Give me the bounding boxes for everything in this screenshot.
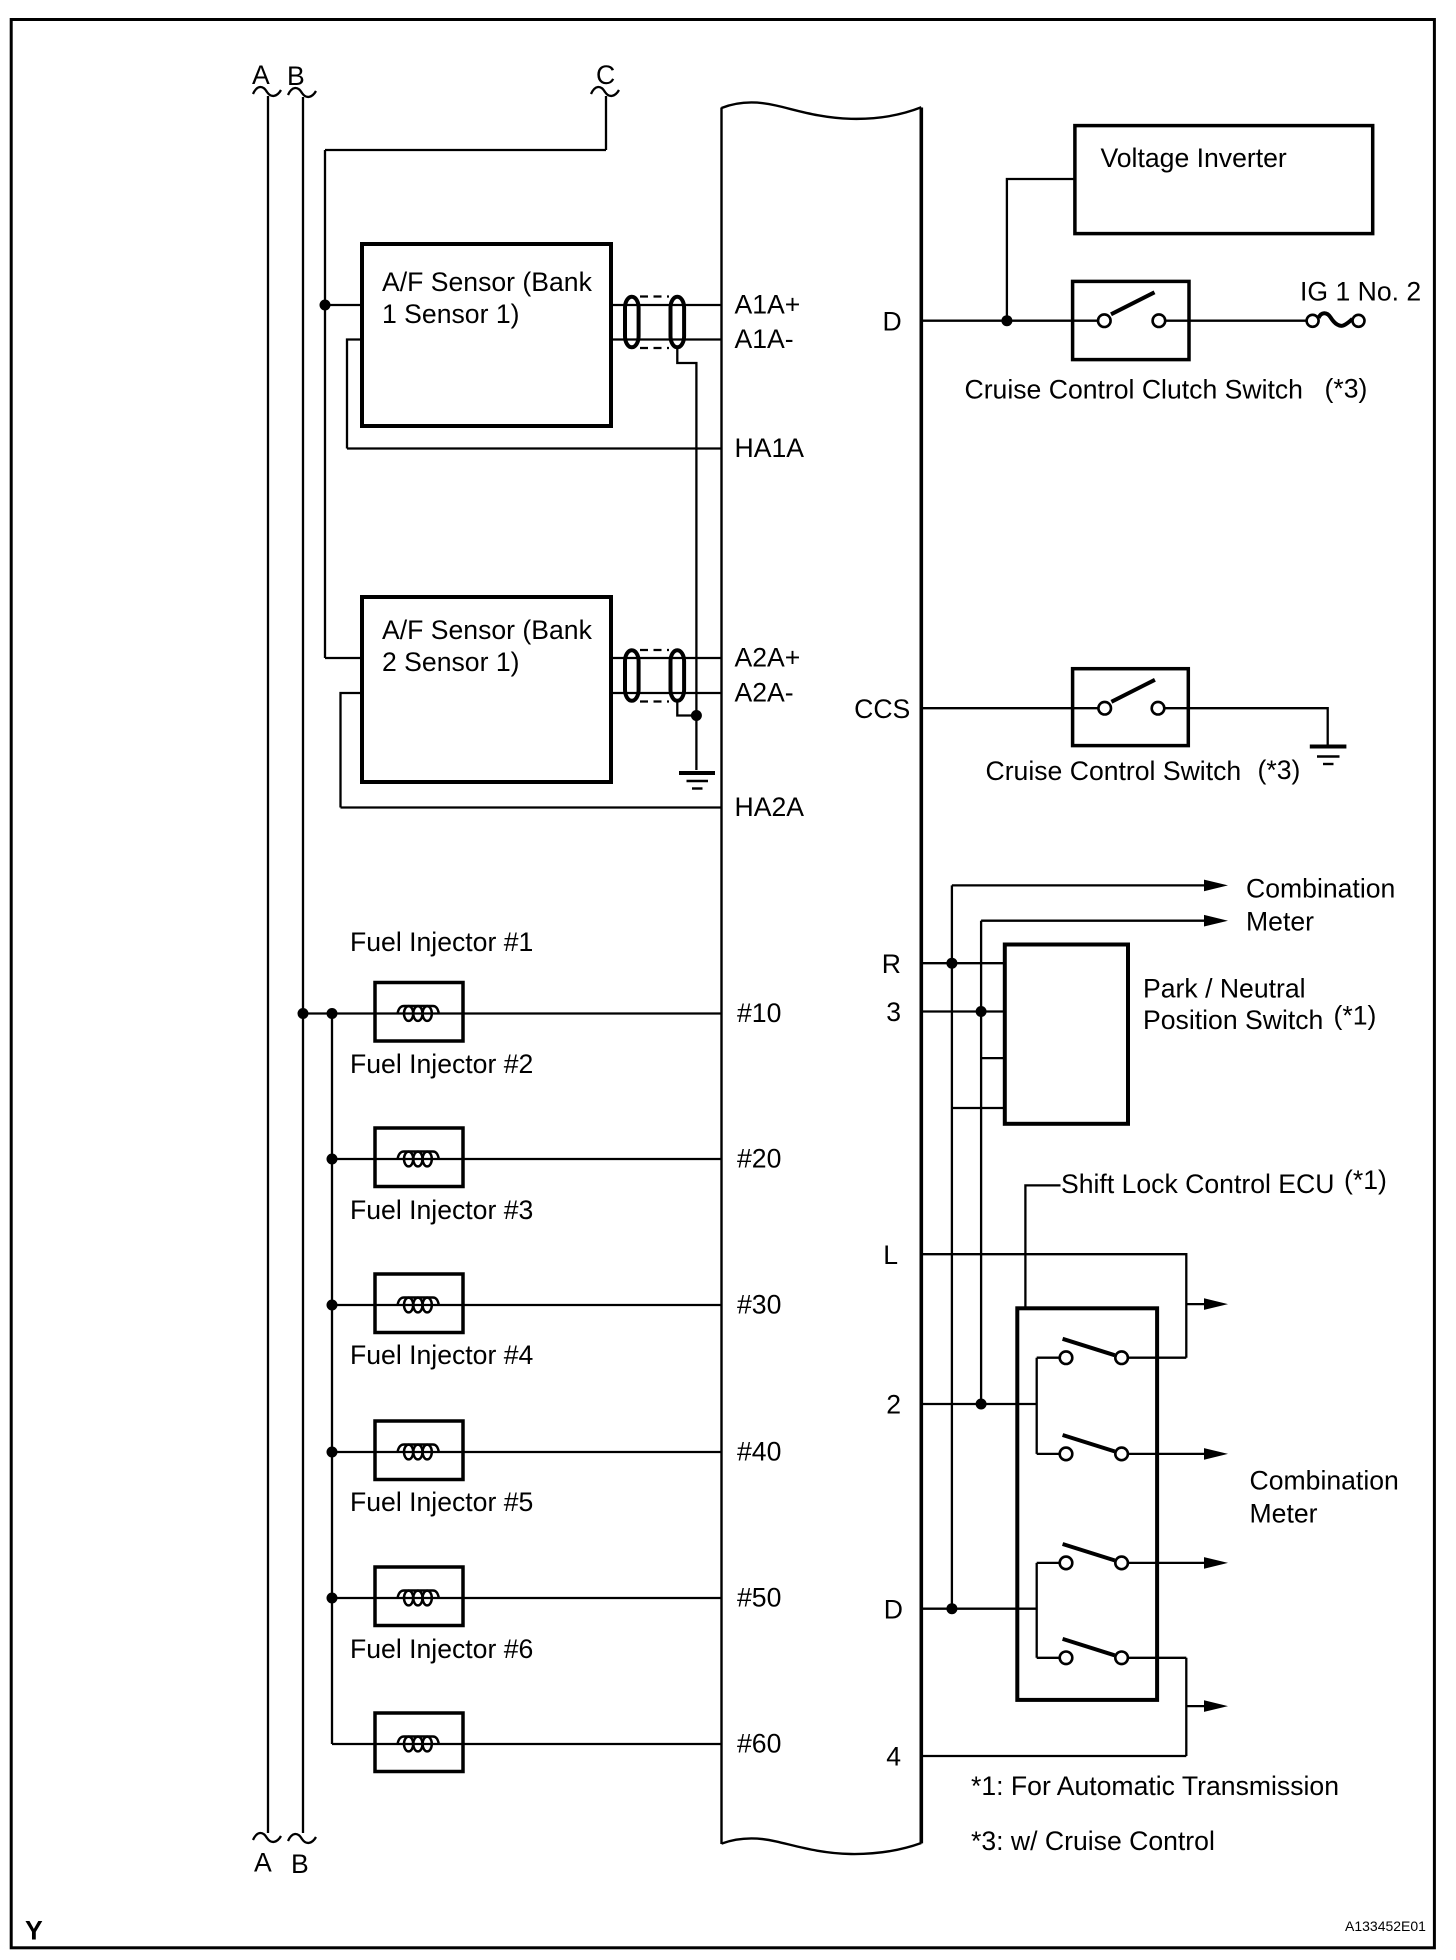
wire R bbox=[921, 962, 1005, 964]
svg-text:B: B bbox=[287, 61, 305, 91]
svg-text:3: 3 bbox=[886, 997, 901, 1027]
node junction dot wire B / injector row 1 bbox=[298, 1008, 309, 1019]
wire A2A- bbox=[611, 692, 722, 694]
wire C left vertical down to sensors bbox=[324, 150, 326, 658]
svg-text:A2A+: A2A+ bbox=[735, 643, 801, 673]
twisted pair bank1 dashed top bbox=[640, 295, 669, 297]
wire bank1 shield to ground bbox=[677, 348, 696, 771]
svg-text:A/F Sensor (Bank: A/F Sensor (Bank bbox=[382, 267, 593, 297]
svg-text:Voltage Inverter: Voltage Inverter bbox=[1101, 143, 1287, 173]
wire shift lock control ECU bbox=[1025, 1185, 1060, 1308]
svg-text:Meter: Meter bbox=[1246, 907, 1314, 937]
break symbol wire A bottom bbox=[253, 1833, 281, 1842]
RIGHT SIDE bbox=[854, 126, 1421, 786]
svg-text:A2A-: A2A- bbox=[735, 678, 794, 708]
wire HA2A bbox=[341, 806, 722, 808]
svg-text:#60: #60 bbox=[737, 1729, 781, 1759]
op Cruise Control Clutch Switch box bbox=[1073, 281, 1189, 359]
svg-text:Cruise Control Clutch Switch: Cruise Control Clutch Switch bbox=[965, 375, 1303, 405]
twisted pair bank2 ellipse 2 bbox=[671, 650, 685, 701]
svg-text:1 Sensor 1): 1 Sensor 1) bbox=[382, 299, 519, 329]
svg-text:C: C bbox=[596, 60, 615, 90]
wire switch 2 right to arrow bbox=[1122, 1453, 1204, 1455]
node junction dot 2 bbox=[976, 1399, 987, 1410]
svg-text:Park / Neutral: Park / Neutral bbox=[1143, 974, 1306, 1004]
wire vertical R-to-D chain bbox=[951, 885, 953, 1608]
switch blade meter 1 bbox=[1063, 1339, 1115, 1355]
svg-text:2 Sensor 1): 2 Sensor 1) bbox=[382, 647, 519, 677]
wire vertical 3-to-2 chain bbox=[980, 921, 982, 1404]
switch contact left clutch bbox=[1098, 314, 1111, 327]
wire injector #4 row bbox=[332, 1451, 722, 1453]
svg-text:CCS: CCS bbox=[854, 694, 910, 724]
svg-text:(*3): (*3) bbox=[1325, 374, 1368, 404]
wire bank1 lower left to HA1A bbox=[347, 340, 362, 449]
svg-text:Y: Y bbox=[25, 1915, 43, 1945]
wire 4 bbox=[921, 1755, 1186, 1757]
node junction dot injector bus row 5 bbox=[327, 1593, 338, 1604]
svg-text:Shift Lock Control ECU: Shift Lock Control ECU bbox=[1061, 1169, 1334, 1199]
svg-text:Combination: Combination bbox=[1246, 874, 1395, 904]
svg-text:Fuel Injector #4: Fuel Injector #4 bbox=[350, 1340, 534, 1370]
switch contact right clutch bbox=[1153, 314, 1166, 327]
ECM bus bottom wavy edge bbox=[722, 1839, 922, 1854]
wire switch 4 arrow tap bbox=[1186, 1705, 1204, 1707]
svg-text:A: A bbox=[254, 1848, 272, 1878]
node junction dot 3 bbox=[976, 1006, 987, 1017]
svg-text:L: L bbox=[883, 1240, 898, 1270]
svg-text:2: 2 bbox=[886, 1390, 901, 1420]
wire CCS switch to ground bbox=[1158, 708, 1328, 745]
wire CCS from bus bbox=[921, 707, 1104, 709]
wire A bbox=[267, 96, 269, 1833]
switch contact right cruise bbox=[1152, 702, 1165, 715]
svg-text:#30: #30 bbox=[737, 1290, 781, 1320]
wire HA1A bbox=[347, 447, 722, 449]
switch contact left cruise bbox=[1098, 702, 1111, 715]
wire bank2 input bbox=[325, 657, 362, 659]
IG terminal circle right bbox=[1353, 315, 1365, 327]
injector L4 box bbox=[375, 1421, 463, 1480]
svg-text:A/F Sensor (Bank: A/F Sensor (Bank bbox=[382, 615, 593, 645]
injector L2 box bbox=[375, 1128, 463, 1187]
svg-text:#50: #50 bbox=[737, 1583, 781, 1613]
svg-text:IG 1 No. 2: IG 1 No. 2 bbox=[1300, 276, 1421, 306]
svg-text:HA1A: HA1A bbox=[735, 433, 805, 463]
op Combination Meter switch box bbox=[1017, 1308, 1157, 1700]
wire bracket switch 3-4 bbox=[1036, 1563, 1038, 1658]
injector L1 coil bbox=[398, 1006, 439, 1014]
IG terminal squiggle bbox=[1319, 313, 1353, 326]
switch blade meter 4 bbox=[1063, 1639, 1115, 1655]
svg-text:Fuel Injector #3: Fuel Injector #3 bbox=[350, 1195, 533, 1225]
twisted pair bank2 dashed bottom bbox=[640, 700, 669, 702]
node junction dot shield bbox=[691, 710, 702, 721]
svg-text:Fuel Injector #6: Fuel Injector #6 bbox=[350, 1634, 533, 1664]
ECM bus top wavy edge bbox=[722, 103, 922, 119]
wire bracket switch 1-2 bbox=[1036, 1358, 1038, 1454]
injector L5 box bbox=[375, 1567, 463, 1626]
node junction dot D / voltage inverter tap bbox=[1001, 315, 1012, 326]
ECM bus right edge bbox=[919, 108, 923, 1844]
wire injector #5 row bbox=[332, 1597, 722, 1599]
wire L arrow tap bbox=[1186, 1303, 1204, 1305]
switch contact left meter 4 bbox=[1060, 1652, 1073, 1665]
svg-text:D: D bbox=[882, 306, 901, 336]
svg-text:R: R bbox=[882, 949, 901, 979]
wire switch 1 right bbox=[1122, 1357, 1187, 1359]
switch contact left meter 2 bbox=[1060, 1448, 1073, 1461]
wire branch into PN switch lower bbox=[952, 1107, 1005, 1109]
wire L bbox=[921, 1254, 1186, 1358]
svg-text:#20: #20 bbox=[737, 1144, 781, 1174]
wire 3 bbox=[921, 1010, 1005, 1012]
wire switch 1 left bbox=[1037, 1357, 1066, 1359]
switch blade meter 3 bbox=[1063, 1544, 1115, 1560]
svg-text:Fuel Injector #2: Fuel Injector #2 bbox=[350, 1049, 533, 1079]
wire C horizontal bbox=[325, 149, 606, 151]
wire bank1 input bbox=[325, 304, 362, 306]
INJECTORS bbox=[331, 1014, 333, 1745]
wire A1A- bbox=[611, 338, 722, 340]
twisted pair bank1 ellipse 1 bbox=[625, 297, 639, 348]
wire combination meter arrow 1 bbox=[952, 884, 1204, 886]
wire injector #1 row bbox=[303, 1012, 722, 1014]
svg-text:Position Switch: Position Switch bbox=[1143, 1005, 1323, 1035]
node junction dot D lower bbox=[946, 1603, 957, 1614]
switch blade clutch bbox=[1111, 292, 1155, 314]
wire C vertical bbox=[605, 96, 607, 150]
svg-text:*1: For Automatic Transmission: *1: For Automatic Transmission bbox=[971, 1771, 1339, 1801]
switch contact left meter 1 bbox=[1060, 1351, 1073, 1364]
svg-text:Fuel Injector #1: Fuel Injector #1 bbox=[350, 927, 533, 957]
twisted pair bank2 ellipse 1 bbox=[625, 650, 639, 701]
wire injector #2 row bbox=[332, 1158, 722, 1160]
ECM bus left edge bbox=[720, 108, 722, 1845]
wire combination meter arrow 2 bbox=[981, 920, 1204, 922]
break symbol wire B bottom bbox=[288, 1834, 316, 1843]
wire switch 4 right bbox=[1122, 1657, 1187, 1659]
svg-text:(*1): (*1) bbox=[1334, 1001, 1377, 1031]
wire A2A+ bbox=[611, 657, 722, 659]
svg-text:A1A-: A1A- bbox=[735, 324, 794, 354]
ground sensor shield bbox=[679, 771, 715, 775]
svg-text:(*3): (*3) bbox=[1258, 755, 1301, 785]
break symbol wire A top bbox=[253, 87, 281, 96]
switch blade meter 2 bbox=[1063, 1435, 1115, 1451]
wire bank2 lower left to HA2A bbox=[341, 693, 363, 808]
svg-text:Meter: Meter bbox=[1250, 1499, 1318, 1529]
injector L3 coil bbox=[398, 1298, 439, 1306]
break symbol wire C bbox=[591, 87, 619, 96]
svg-text:A133452E01: A133452E01 bbox=[1345, 1918, 1426, 1934]
injector L1 box bbox=[375, 983, 463, 1042]
injector L6 coil bbox=[398, 1737, 439, 1745]
wire switch 4 output down bbox=[1185, 1658, 1187, 1756]
wire branch into PN switch upper bbox=[981, 1057, 1005, 1059]
wire injector #6 row bbox=[332, 1743, 722, 1745]
wire voltage inverter tap bbox=[1007, 179, 1075, 321]
wire 2 bbox=[921, 1403, 1036, 1405]
switch contact right meter 1 bbox=[1115, 1351, 1128, 1364]
node junction dot injector bus row 1 bbox=[327, 1008, 338, 1019]
switch contact right meter 2 bbox=[1115, 1448, 1128, 1461]
wire switch 4 left bbox=[1037, 1657, 1066, 1659]
switch contact right meter 4 bbox=[1115, 1652, 1128, 1665]
injector L3 box bbox=[375, 1274, 463, 1333]
svg-text:D: D bbox=[884, 1594, 903, 1624]
injector L5 coil bbox=[398, 1591, 439, 1599]
op A/F Sensor Bank2 box bbox=[362, 597, 611, 782]
wire D switch to IG bbox=[1159, 320, 1307, 322]
injector L6 box bbox=[375, 1713, 463, 1772]
switch blade cruise bbox=[1111, 680, 1155, 702]
switch contact left meter 3 bbox=[1060, 1557, 1073, 1570]
IG terminal circle left bbox=[1307, 315, 1319, 327]
svg-text:Combination: Combination bbox=[1250, 1465, 1399, 1495]
wire injector #3 row bbox=[332, 1304, 722, 1306]
wire B bbox=[302, 97, 304, 1833]
op Cruise Control Switch box bbox=[1073, 669, 1189, 746]
switch contact right meter 3 bbox=[1115, 1557, 1128, 1570]
op A/F Sensor Bank1 box bbox=[362, 244, 611, 426]
op Voltage Inverter box bbox=[1075, 126, 1373, 234]
node junction dot on C line at bank1 input bbox=[320, 300, 331, 311]
wire bank2 shield bbox=[677, 701, 696, 716]
svg-text:4: 4 bbox=[886, 1742, 901, 1772]
wire switch 3 right to arrow bbox=[1122, 1562, 1204, 1564]
svg-text:#40: #40 bbox=[737, 1437, 781, 1467]
twisted pair bank1 dashed bottom bbox=[640, 347, 669, 349]
svg-text:*3: w/ Cruise Control: *3: w/ Cruise Control bbox=[971, 1826, 1215, 1856]
svg-text:A: A bbox=[252, 60, 270, 90]
ground cruise switch bbox=[1310, 745, 1347, 749]
injector L4 coil bbox=[398, 1445, 439, 1453]
svg-text:#10: #10 bbox=[737, 998, 781, 1028]
node junction dot injector bus row 4 bbox=[327, 1447, 338, 1458]
svg-text:A1A+: A1A+ bbox=[735, 290, 801, 320]
wire switch 2 left bbox=[1037, 1453, 1066, 1455]
injector bus vertical bbox=[331, 1014, 333, 1745]
svg-text:Cruise Control Switch: Cruise Control Switch bbox=[986, 756, 1242, 786]
svg-text:(*1): (*1) bbox=[1344, 1165, 1387, 1195]
svg-text:Fuel Injector #5: Fuel Injector #5 bbox=[350, 1487, 533, 1517]
svg-text:B: B bbox=[291, 1849, 309, 1879]
break symbol wire B top bbox=[288, 88, 316, 97]
injector L2 coil bbox=[398, 1152, 439, 1160]
twisted pair bank2 dashed top bbox=[640, 649, 669, 651]
wire switch 3 left bbox=[1037, 1562, 1066, 1564]
node junction dot R bbox=[946, 958, 957, 969]
wire D lower bbox=[921, 1608, 1036, 1610]
svg-text:HA2A: HA2A bbox=[735, 792, 805, 822]
wire D from bus bbox=[921, 320, 1104, 322]
node junction dot injector bus row 2 bbox=[327, 1154, 338, 1165]
op Park Neutral Position Switch box bbox=[1005, 945, 1128, 1124]
node junction dot injector bus row 3 bbox=[327, 1300, 338, 1311]
wire A1A+ bbox=[611, 304, 722, 306]
twisted pair bank1 ellipse 2 bbox=[671, 297, 685, 348]
